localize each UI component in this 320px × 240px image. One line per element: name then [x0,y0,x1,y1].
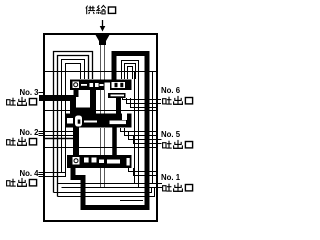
svg-text:No. 3: No. 3 [19,88,39,97]
svg-text:No. 1: No. 1 [161,173,181,182]
svg-text:No. 4: No. 4 [19,169,39,178]
svg-text:No. 5: No. 5 [161,130,181,139]
svg-text:No. 2: No. 2 [19,128,39,137]
svg-text:No. 6: No. 6 [161,86,181,95]
